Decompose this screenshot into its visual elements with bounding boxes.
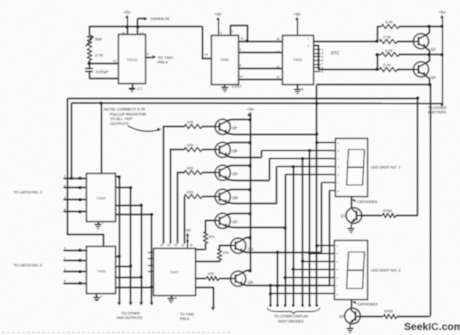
transistor QF xyxy=(215,119,230,134)
wire latch1 input 8 xyxy=(64,211,87,213)
wire to pin 11 xyxy=(89,63,119,65)
ground (7490) xyxy=(224,84,226,88)
resistor 470 (QD base) xyxy=(185,171,203,175)
ground (latch2) xyxy=(96,294,98,297)
pin 14 stub (74122) xyxy=(127,27,129,35)
transistor QA xyxy=(231,271,246,286)
wire latch2 input 8 xyxy=(64,283,87,285)
transistor Q4 xyxy=(413,62,428,77)
wire LED2 segment pin 1 xyxy=(317,245,335,247)
wire QC collector xyxy=(228,214,251,215)
wire strobe bus B1 xyxy=(67,98,417,100)
ground (latch1) xyxy=(98,221,100,225)
wire latch2 input 4 xyxy=(64,271,87,273)
wire QD collector xyxy=(228,166,251,167)
wire BCD bus vertical 4 xyxy=(151,215,153,303)
wire output D xyxy=(238,79,282,81)
transistor QD xyxy=(215,165,230,180)
resistor 4.7K (Q4 pull-up) xyxy=(376,53,379,56)
wire output A xyxy=(238,41,282,43)
resistor 470 (QA base) xyxy=(195,278,206,280)
resistor 4.7K (Q2 pull-up) xyxy=(376,40,379,43)
wire segment e riser-drop xyxy=(285,175,287,228)
resistor 2.7K xyxy=(88,49,92,61)
ground (74122) xyxy=(132,84,134,88)
wire LED2 segment pin 6 xyxy=(278,285,335,287)
wire left drop to latch1 input xyxy=(71,103,73,178)
wire segment g riser xyxy=(329,191,331,285)
transistor Q2 xyxy=(413,34,428,49)
wire to 7490 pin 8 xyxy=(196,288,214,308)
wire Q1 base feed from bus xyxy=(417,98,419,216)
wire output B xyxy=(238,52,282,54)
wire latch1 strobe drop xyxy=(101,104,103,174)
wire segment f riser xyxy=(321,183,323,253)
wire LED2 segment pin 2 xyxy=(310,253,335,255)
IC 7400 latch 1 xyxy=(87,174,116,222)
resistor 470 (QG base) xyxy=(196,261,220,262)
wire LED2 segment pin 7 xyxy=(270,293,334,295)
wire BCD bus vertical 1 xyxy=(119,177,121,302)
ground (Q3) xyxy=(349,323,352,329)
resistor 2.7K (Q2 base) xyxy=(380,40,398,44)
wire latch1 output 1 xyxy=(116,176,120,178)
transistor Q1 digit1 cathode driver xyxy=(346,208,362,224)
LED digit 2 display xyxy=(335,241,368,300)
wire LED2 segment pin 3 xyxy=(303,261,335,263)
wire LED1 segment pin 7 xyxy=(329,190,335,192)
wire segment b drop xyxy=(309,151,311,306)
IC 7400 latch 2 xyxy=(87,247,116,294)
wire segment c drop xyxy=(302,159,304,306)
wire latch2 output 3 xyxy=(116,277,142,279)
resistor 470 ohm (Q1 base) xyxy=(361,215,382,217)
wire clock feed to 7490 xyxy=(203,27,212,59)
wire segment a vertical xyxy=(316,104,318,306)
wire LED2 segment pin 5 xyxy=(285,277,335,279)
IC 7447 decoder driver xyxy=(154,249,196,296)
wire QF collector xyxy=(228,120,251,121)
wire QF emitter xyxy=(228,134,317,135)
wire cathode (digit2) xyxy=(351,299,353,309)
resistor 470 (QE base) xyxy=(185,148,203,152)
wire Q3 base feed xyxy=(430,85,432,316)
wire QC emitter xyxy=(228,227,286,228)
ground (7442) xyxy=(297,84,299,90)
IC 7442 BCD decoder xyxy=(283,36,314,85)
wire 7447 output feed 1 xyxy=(164,127,185,244)
wire output 1 xyxy=(313,41,377,43)
wire QA collector xyxy=(243,271,251,273)
wire 7447 output feed 3 xyxy=(178,173,185,244)
wire output 2 xyxy=(314,46,323,70)
wire Q2 emitter to bus xyxy=(426,48,430,62)
transistor QG xyxy=(231,238,246,253)
ground (7447) xyxy=(171,295,173,299)
resistor 470 ohm (Q3 base) xyxy=(360,316,384,318)
capacitor 0.67uF xyxy=(89,63,91,68)
node junction xyxy=(89,61,91,64)
wire LED1 segment pin 2 xyxy=(262,150,336,152)
wire Q2 collector xyxy=(426,27,430,36)
wire latch2 output 1 xyxy=(116,256,120,258)
scan artifact bottom line xyxy=(2,332,230,334)
transistor QC xyxy=(215,213,230,228)
wire Q4 collector xyxy=(426,61,430,64)
wire segment f drop xyxy=(277,252,279,305)
wire QG emitter xyxy=(243,252,322,253)
potentiometer 50K xyxy=(89,27,91,35)
wire 1000Hz IN xyxy=(138,18,145,20)
wire 7447 inputs from bus xyxy=(148,252,153,254)
output stubs ETC xyxy=(313,49,321,51)
wire 7447 output feed 4 xyxy=(184,197,186,244)
wire top rail xyxy=(89,26,202,28)
wire BCD bus vertical 2 xyxy=(130,188,132,302)
wire xyxy=(89,72,91,78)
wire LED1 segment pin 1 xyxy=(317,142,336,144)
transistor Q3 digit2 cathode driver xyxy=(345,308,361,324)
wire Q4 emitter xyxy=(426,76,430,85)
bracket tick ends xyxy=(316,304,318,306)
wire segment e drop xyxy=(285,228,287,306)
wire LED1 segment pin 6 xyxy=(322,182,336,184)
wire 7447 output to QC resistor xyxy=(196,249,206,251)
LED digit 1 display xyxy=(336,139,368,197)
wire latch1 input 1 xyxy=(64,178,87,180)
wire cathode (digit1) xyxy=(351,197,353,209)
wire latch2 input 2 xyxy=(64,260,87,262)
wire latch1 output 2 xyxy=(116,187,131,189)
wire latch2 input 1 xyxy=(64,250,87,252)
wire LED1 segment pin 5 xyxy=(285,174,336,176)
wire QD emitter xyxy=(228,180,270,181)
wire emitter bus to other digits xyxy=(440,104,443,107)
wire QA emitter xyxy=(243,285,330,286)
brace under bracket xyxy=(267,308,320,314)
wire 7447 output feed 2 xyxy=(171,150,185,244)
wire LED1 segment pin 3 xyxy=(269,158,336,160)
wire QE collector xyxy=(228,143,251,144)
wire LED1 segment pin 4 xyxy=(277,166,336,168)
wire output to 7447 pin 4 xyxy=(146,57,153,59)
wire QB emitter xyxy=(228,203,277,204)
wire BCD bus vertical 3 xyxy=(141,205,143,302)
node 1000Hz input pin xyxy=(137,19,139,35)
transistor QB xyxy=(215,189,230,204)
wire latch1 output 3 xyxy=(116,205,142,207)
wire QG collector xyxy=(243,238,251,240)
wire latch2 output 2 xyxy=(116,266,131,268)
resistor 470 (QC base) xyxy=(205,244,207,250)
wire segment g drop xyxy=(270,285,272,305)
wire latch2 output 4 xyxy=(116,287,152,289)
wire latch1 input 2 xyxy=(64,187,87,189)
wire segment d drop xyxy=(293,167,295,306)
wire strobe bus B2 xyxy=(71,102,442,105)
op-amp U1 74122 one-shot xyxy=(119,35,146,84)
wire LED2 segment pin 4 xyxy=(293,269,334,271)
wire latch2 strobe drop xyxy=(68,99,104,247)
transistor QE xyxy=(215,142,230,157)
wire latch1 input 4 xyxy=(64,199,87,201)
IC 7490 decade counter xyxy=(212,36,239,85)
wire QE emitter xyxy=(228,157,262,158)
wire latch1 output 4 xyxy=(116,214,152,216)
wire segment b riser xyxy=(261,151,263,158)
wire xyxy=(316,85,318,104)
wire segment c riser xyxy=(269,159,271,180)
resistor 470 (QB base) xyxy=(185,195,203,199)
wire feedback loop pin1 to pin12 xyxy=(231,26,248,42)
wire segment d riser xyxy=(276,167,278,204)
wire digit2 anode line xyxy=(317,84,429,86)
resistor 470 (QF base) xyxy=(185,125,203,129)
wire output C xyxy=(238,68,282,70)
wire QB collector xyxy=(228,190,251,191)
ground (Q1) xyxy=(350,222,353,228)
resistor 2.7K (Q4 base) xyxy=(322,69,379,71)
